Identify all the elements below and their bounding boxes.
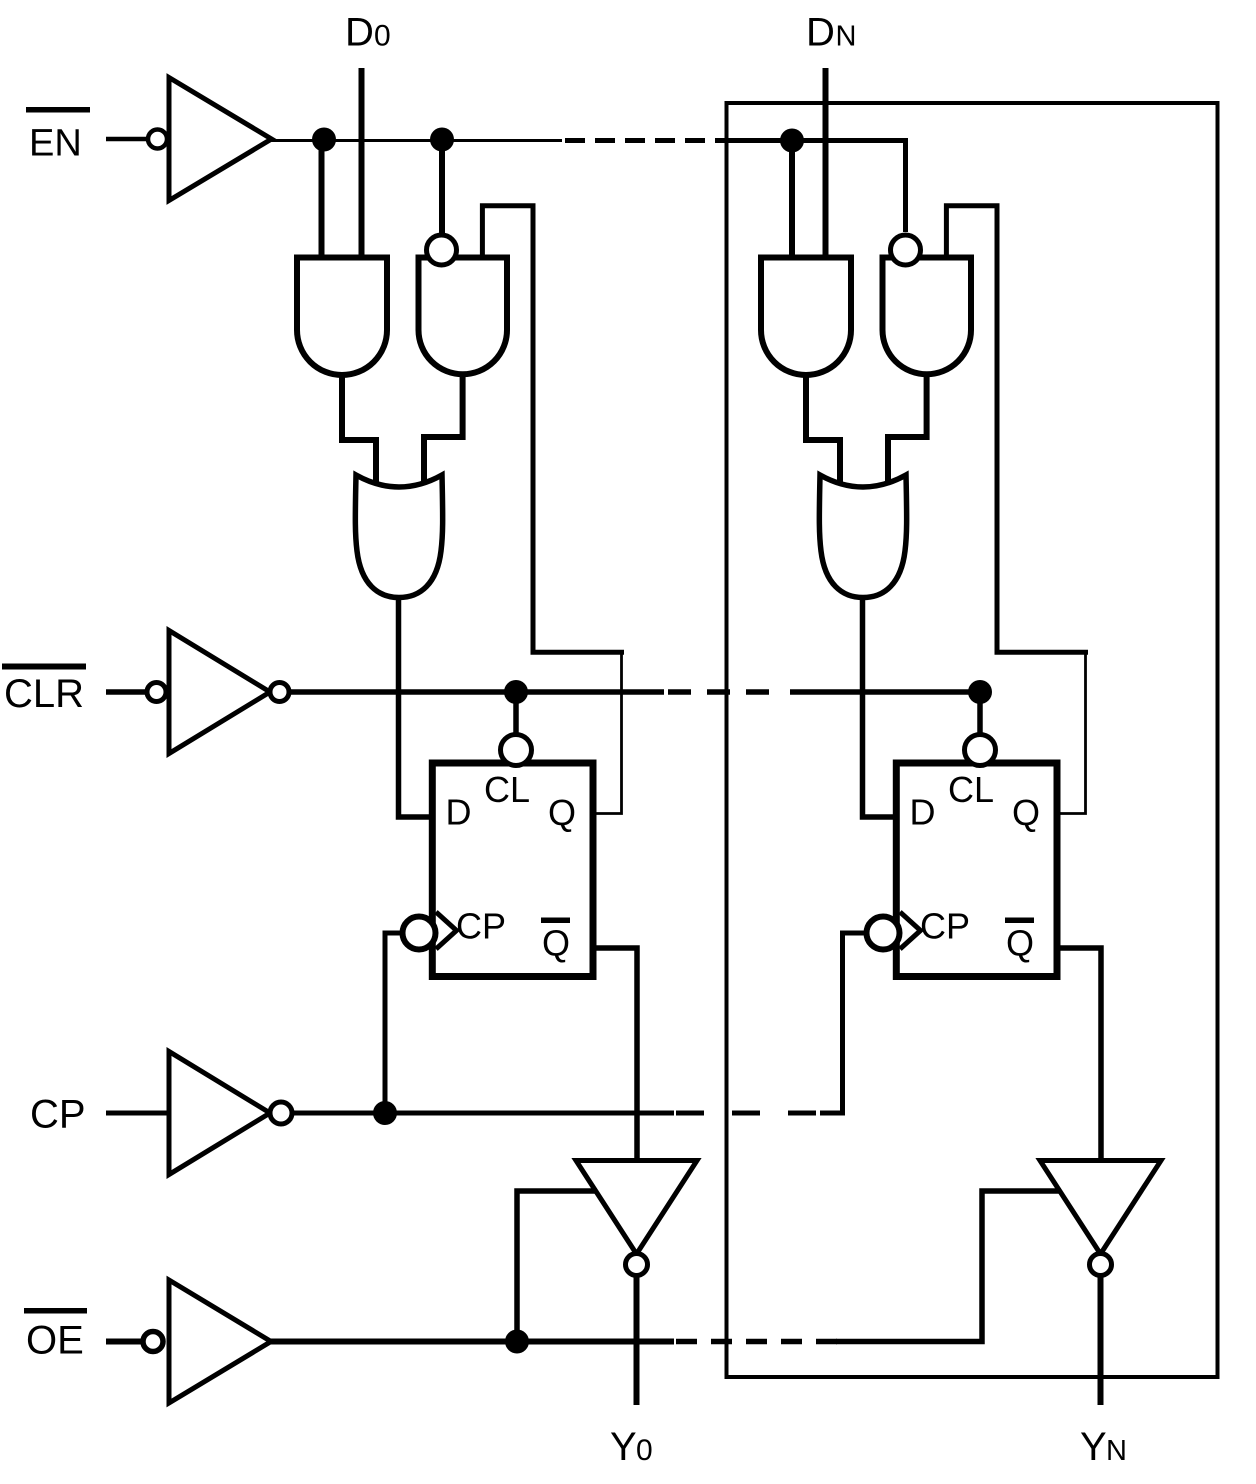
svg-text:Y: Y [610, 1425, 637, 1469]
net label CLR (active low) [2, 664, 86, 670]
FF0 CL inversion bubble [501, 735, 532, 766]
svg-text:CP: CP [920, 906, 970, 947]
svg-text:D: D [446, 792, 472, 833]
tri-state output buffer (bit N) [1040, 1161, 1161, 1255]
CP inverter output bubble [270, 1102, 292, 1124]
cell boundary rectangle (bit N) [727, 103, 1218, 1377]
CLR dashed continuation [668, 689, 776, 695]
CLR input wire [106, 689, 149, 695]
EN dashed continuation [565, 138, 720, 143]
tri-state output bubble (bit 0) [626, 1254, 648, 1276]
wire Q feedback to AND input (bit 0) [482, 206, 624, 653]
OE net wire (bit 0) [271, 1339, 674, 1345]
wire Q output (thin segment) (bit 0) [596, 652, 622, 813]
svg-text:CL: CL [948, 769, 994, 810]
wire Q feedback to AND input (bit N) [946, 206, 1088, 653]
wire AND A output (bit N) [806, 374, 840, 486]
OE dashed continuation [676, 1339, 838, 1345]
wire AND B output (bit N) [888, 374, 927, 481]
wire AND A output (bit 0) [342, 374, 376, 486]
FF0 clock wedge [436, 912, 457, 949]
CP net wire (bit N) + riser to FFN clock bubble [820, 933, 864, 1113]
svg-text:Q: Q [1012, 792, 1040, 833]
svg-text:CLR: CLR [4, 672, 84, 716]
AND gate A (bit 0) [297, 258, 387, 376]
AND gate B with inverted input (bit 0) [419, 258, 508, 375]
svg-text:D: D [910, 792, 936, 833]
inversion bubble on AND B input (bit 0) [427, 235, 457, 265]
FF0 CP inversion bubble [403, 917, 436, 950]
wire OR output to flip-flop D (bit 0) [399, 595, 431, 817]
CP dashed continuation [676, 1111, 818, 1116]
D flip-flop FF0 [432, 763, 593, 977]
wire AND B output (bit 0) [424, 374, 463, 481]
svg-text:D: D [345, 11, 374, 55]
svg-text:Q: Q [1006, 923, 1034, 964]
DN input wire [823, 68, 829, 260]
svg-text:Q: Q [542, 923, 570, 964]
svg-text:D: D [806, 11, 835, 55]
svg-text:OE: OE [26, 1319, 84, 1363]
wire CP to FF0 clock bubble [385, 933, 400, 1113]
CLR net wire (bit N) [790, 689, 980, 695]
CLR inverter input bubble [147, 683, 166, 702]
junction dot CP riser (bit 0) [373, 1101, 397, 1125]
CLR net wire (bit 0) [289, 689, 664, 695]
svg-text:Q: Q [548, 792, 576, 833]
svg-text:N: N [1106, 1435, 1127, 1467]
tri-state output bubble (bit N) [1090, 1254, 1112, 1276]
EN net wire (bit N) [718, 141, 906, 233]
buffer U1 (EN) [169, 78, 272, 201]
inversion bubble on AND B input (bit N) [891, 235, 921, 265]
EN input wire [106, 137, 150, 142]
junction dot OE (bit 0) [505, 1330, 529, 1354]
CLR inverter output bubble [270, 683, 289, 702]
FF0 pin label Q-bar [541, 918, 570, 924]
buffer U4 (OE) [169, 1280, 271, 1403]
svg-text:Y: Y [1080, 1425, 1107, 1469]
wire EN dot to AND C input (bit N) [789, 141, 795, 261]
AND gate A (bit N) [761, 258, 851, 376]
FFN CL inversion bubble [965, 735, 996, 766]
svg-text:N: N [836, 21, 857, 53]
OR gate (bit N) [819, 475, 906, 598]
wire Q-bar output to tri-state buffer (bit 0) [596, 948, 637, 1163]
OR gate (bit 0) [355, 475, 442, 598]
D0 input wire [359, 68, 365, 260]
YN output wire [1098, 1275, 1104, 1405]
wire CLR dot to CL bubble (bit 0) [513, 692, 519, 740]
CP input wire [106, 1111, 169, 1116]
inverter U2 (CLR) [169, 631, 270, 754]
svg-text:CP: CP [30, 1093, 86, 1137]
EN buffer input bubble [148, 130, 167, 149]
wire EN dot to AND A input [319, 140, 325, 261]
wire EN dot to AND B inverting input [439, 140, 445, 237]
FFN clock wedge [900, 912, 921, 949]
inverter U3 (CP) [169, 1052, 270, 1175]
AND gate B with inverted input (bit N) [883, 258, 972, 375]
svg-text:CP: CP [456, 906, 506, 947]
svg-text:CL: CL [484, 769, 530, 810]
tri-state output buffer (bit 0) [576, 1161, 697, 1255]
wire CLR dot to CL bubble (bit N) [977, 692, 983, 740]
junction dot EN to AND gate B bubble (bit 0) [430, 128, 454, 152]
svg-text:EN: EN [29, 123, 82, 165]
wire Q output (thin segment) (bit N) [1060, 652, 1086, 813]
wire Q-bar output to tri-state buffer (bit N) [1060, 948, 1101, 1163]
junction dot EN to AND gate A (bit 0) [312, 128, 336, 152]
Y0 output wire [634, 1275, 640, 1405]
junction dot CLR to CL pin (bit 0) [504, 680, 528, 704]
OE input wire [106, 1339, 145, 1345]
wire OE to buffer enable (bit 0) [517, 1191, 597, 1342]
OE net wire (bit N) + riser to buffer enable [836, 1191, 1061, 1342]
OE buffer input bubble [143, 1332, 163, 1352]
EN net wire (bit 0) [272, 139, 563, 142]
junction dot EN (bit N) [780, 129, 804, 153]
D flip-flop FFN [896, 763, 1057, 977]
svg-text:0: 0 [374, 20, 391, 53]
FFN CP inversion bubble [867, 917, 900, 950]
net label OE (active low) [24, 1308, 87, 1314]
junction dot CLR to CL pin (bit N) [968, 680, 992, 704]
FFN pin label Q-bar [1005, 918, 1034, 924]
svg-text:0: 0 [636, 1434, 653, 1467]
net label EN (active low) [26, 107, 90, 113]
CP net wire (bit 0) [292, 1111, 674, 1116]
wire OR output to flip-flop D (bit N) [863, 595, 895, 817]
